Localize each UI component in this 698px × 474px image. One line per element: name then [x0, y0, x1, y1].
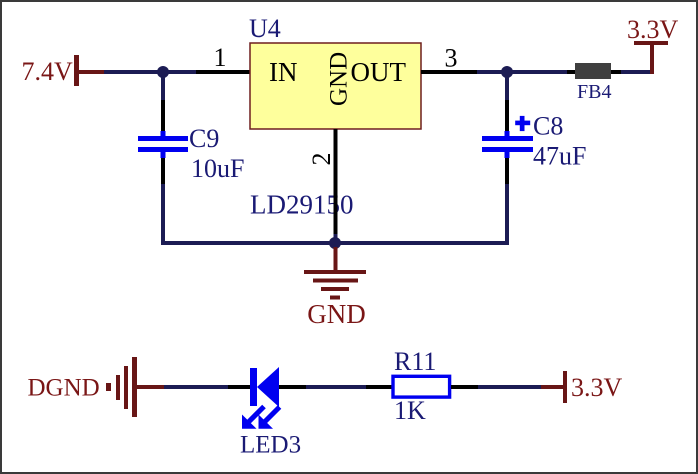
svg-text:C8: C8	[533, 112, 563, 141]
node C junction (bottom rail)	[329, 237, 341, 249]
svg-text:LED3: LED3	[240, 432, 301, 459]
svg-text:LD29150: LD29150	[250, 190, 354, 220]
svg-text:IN: IN	[269, 57, 298, 87]
svg-text:FB4: FB4	[577, 81, 611, 103]
svg-text:1K: 1K	[394, 396, 426, 425]
LED3 anode pin wire	[279, 385, 306, 389]
capacitor C9	[138, 74, 244, 245]
LED3 cathode pin wire	[228, 385, 250, 389]
ground GND symbol	[304, 270, 366, 329]
node A junction	[157, 66, 169, 78]
svg-text:3.3V: 3.3V	[571, 373, 623, 402]
svg-text:7.4V: 7.4V	[22, 57, 74, 86]
wire 7.4V to node A	[104, 70, 196, 74]
R11 left pin wire	[366, 385, 393, 389]
pin 2 wire	[334, 129, 338, 239]
power port 7.4V	[22, 55, 105, 86]
svg-text:3: 3	[445, 44, 458, 73]
ferrite bead FB4	[567, 63, 621, 103]
pin 3 wire	[421, 70, 477, 74]
regulator U4 body	[250, 43, 421, 129]
svg-text:3.3V: 3.3V	[627, 15, 679, 44]
wire bottom rail	[161, 241, 509, 245]
svg-text:C9: C9	[189, 124, 219, 153]
wire R11 to 3.3V port	[478, 385, 541, 389]
svg-text:U4: U4	[249, 14, 281, 43]
capacitor C8 (polarized)	[482, 74, 586, 245]
wire pin3 to node B	[477, 70, 507, 74]
node B junction	[501, 66, 513, 78]
R11 right pin wire	[451, 385, 478, 389]
pin 1 wire	[196, 70, 250, 74]
LED LED3	[240, 367, 301, 459]
svg-text:OUT: OUT	[351, 57, 407, 87]
wire LED3 to R11	[306, 385, 366, 389]
svg-text:GND: GND	[307, 299, 366, 329]
svg-text:1: 1	[214, 43, 227, 72]
svg-text:GND: GND	[326, 52, 353, 106]
wire FB4 to 3.3V port	[621, 70, 652, 74]
svg-text:DGND: DGND	[28, 375, 100, 402]
wire node B to FB4	[512, 70, 567, 74]
svg-text:10uF: 10uF	[191, 154, 244, 183]
power port 3.3V (top right)	[627, 15, 679, 74]
power port 3.3V (bottom right)	[541, 371, 623, 403]
svg-text:2: 2	[307, 153, 336, 166]
wire node C to ground	[334, 247, 338, 271]
power port DGND	[28, 357, 165, 417]
svg-text:47uF: 47uF	[533, 142, 586, 171]
svg-text:R11: R11	[394, 347, 436, 376]
resistor R11	[393, 347, 450, 425]
wire DGND to LED3	[164, 385, 228, 389]
